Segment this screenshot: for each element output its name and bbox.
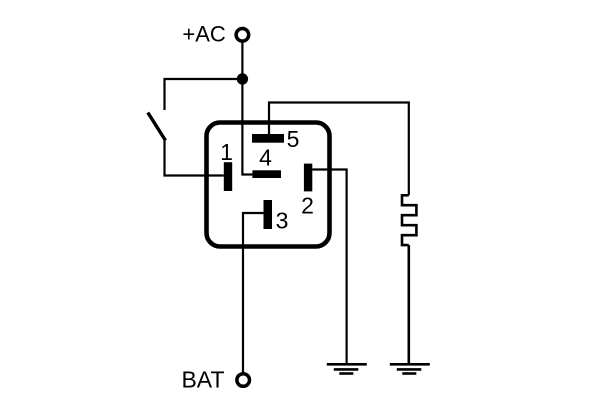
relay pin 5 <box>252 134 284 143</box>
terminal +AC <box>236 29 249 42</box>
svg-text:+AC: +AC <box>182 22 226 47</box>
switch S1 blade <box>148 113 166 141</box>
wire from +AC terminal to junction <box>241 43 243 80</box>
junction node <box>237 73 248 84</box>
terminal BAT <box>237 374 250 387</box>
wire pin 3 to BAT terminal <box>243 213 264 372</box>
wire switch bottom to relay pin 1 <box>165 141 224 176</box>
svg-text:1: 1 <box>220 139 233 165</box>
svg-text:2: 2 <box>301 193 314 219</box>
svg-text:3: 3 <box>276 208 289 234</box>
ground (left, from pin 2) <box>327 364 367 373</box>
wire resistor to right ground <box>407 245 410 363</box>
wire junction to switch top <box>165 79 243 110</box>
svg-text:5: 5 <box>287 126 300 152</box>
relay pin 4 <box>252 170 281 178</box>
svg-text:4: 4 <box>259 145 272 171</box>
relay pin 2 <box>304 164 312 192</box>
relay K1 body <box>207 123 330 247</box>
wire junction down to pin 4 <box>242 79 252 175</box>
ground (right, below resistor) <box>390 364 430 373</box>
svg-text:BAT: BAT <box>181 367 224 393</box>
wire pin 5 up and right to resistor <box>269 103 409 196</box>
wire pin 2 to left ground <box>312 170 346 364</box>
relay pin 1 <box>224 162 232 191</box>
relay pin 3 <box>264 200 273 229</box>
resistor R1 (square-wave symbol) <box>402 195 416 245</box>
